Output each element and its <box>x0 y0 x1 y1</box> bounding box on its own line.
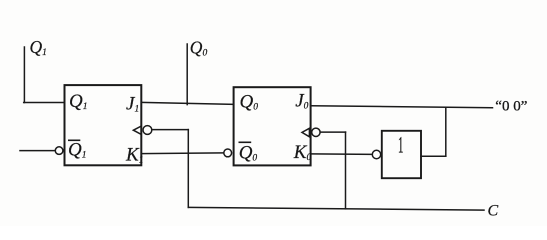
svg-text:1: 1 <box>398 132 403 157</box>
bubble on Q-bar-0 output of FF0 <box>224 149 232 157</box>
svg-text:Q0: Q0 <box>240 92 259 113</box>
svg-text:Q0: Q0 <box>190 38 208 59</box>
svg-text:J1: J1 <box>126 94 139 115</box>
wire FF0 clock vertical down to C line <box>345 132 347 209</box>
svg-text:Q1: Q1 <box>68 140 86 161</box>
wire inverter G1 to J0 line vertical <box>445 107 447 156</box>
wire K0 input to inverter G1 <box>311 153 373 156</box>
wire J1 input to Q0 output (node between FF1 and FF0) <box>141 102 233 104</box>
svg-text:Q1: Q1 <box>69 91 87 112</box>
svg-text:C: C <box>488 203 499 220</box>
bubble on inverter G1 left pin <box>372 150 380 158</box>
clock arrowhead of FF0 <box>302 128 309 137</box>
overline of Q-bar-1 <box>68 139 80 141</box>
overline of Q-bar-0 <box>239 141 252 143</box>
svg-text:K0: K0 <box>293 142 312 163</box>
clock arrowhead of FF1 <box>133 126 141 134</box>
wire J0 input to "00" net <box>311 106 493 108</box>
flip-flop FF0 box <box>234 87 311 165</box>
wire C clock line <box>188 207 484 210</box>
svg-text:Q0: Q0 <box>239 143 258 164</box>
bubble on clock input of FF0 <box>312 128 320 136</box>
wire Q-bar-1 output to left edge <box>20 150 55 152</box>
wire inverter G1 right pin horizontal <box>421 155 446 157</box>
svg-text:“0 0”: “0 0” <box>495 99 527 115</box>
wire FF0 clock horizontal <box>320 131 345 133</box>
wire FF1 clock horizontal <box>153 129 189 131</box>
bubble on clock input of FF1 <box>143 126 152 135</box>
wire K1 input to Q-bar-0 output <box>141 152 223 155</box>
svg-text:J0: J0 <box>295 91 308 112</box>
flip-flop FF1 box <box>65 85 142 165</box>
bubble on Q-bar-1 output of FF1 <box>55 147 63 155</box>
svg-text:Q1: Q1 <box>30 37 47 58</box>
wire FF1 clock vertical down to C line <box>187 130 189 208</box>
wire Q1 output stub vertical <box>23 47 25 103</box>
wire Q0 label stub vertical <box>186 44 188 105</box>
inverter gate G1 box <box>382 131 421 178</box>
wire Q1 output stub horizontal <box>24 102 65 104</box>
